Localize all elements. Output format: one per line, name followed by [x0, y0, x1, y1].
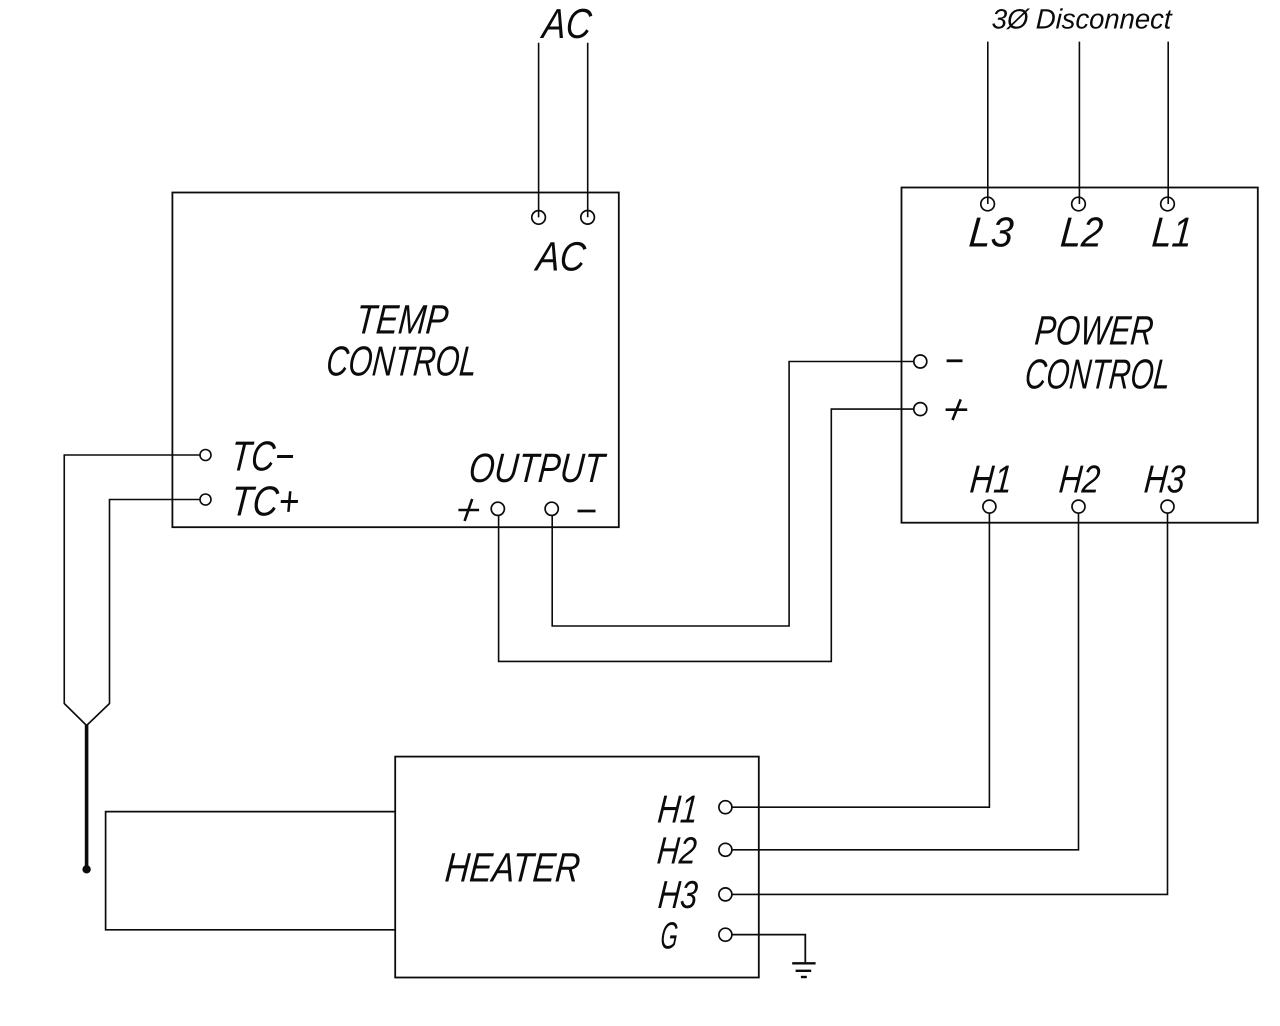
label TC+ [229, 478, 301, 525]
label AC (source) [538, 0, 594, 47]
svg-text:HEATER: HEATER [443, 845, 582, 891]
svg-text:L2: L2 [1059, 209, 1105, 256]
wire OUTPUT+ to POWER CONTROL + [499, 409, 914, 661]
svg-text:H1: H1 [968, 459, 1014, 502]
terminal power plus [914, 403, 927, 416]
wire TC- to thermocouple [64, 455, 200, 726]
svg-text:3Ø Disconnect: 3Ø Disconnect [991, 3, 1173, 34]
label 3-phase disconnect [991, 3, 1173, 34]
svg-text:H2: H2 [656, 831, 699, 873]
label CONTROL (power) [1023, 351, 1172, 398]
terminal heater H1 [719, 801, 732, 814]
label G (heater) [659, 916, 680, 958]
label POWER [1033, 308, 1155, 354]
wire AC line 2 [587, 43, 589, 218]
label H2 (power) [1057, 459, 1102, 502]
minus sign power - [947, 359, 963, 362]
wire H2 power to heater [732, 513, 1079, 850]
label H1 (heater) [656, 788, 700, 831]
label H1 (power) [968, 459, 1014, 502]
label L3 [967, 209, 1016, 256]
wire L2 [1078, 42, 1080, 204]
svg-text:H3: H3 [657, 874, 700, 917]
terminal AC-1 [532, 211, 546, 225]
wire G to ground [732, 935, 805, 963]
label TEMP [354, 296, 450, 342]
plus sign OUTPUT+ [458, 499, 479, 521]
terminal TC+ [200, 494, 211, 505]
minus sign OUTPUT- [578, 510, 596, 513]
svg-text:POWER: POWER [1033, 308, 1155, 354]
terminal L3 [981, 197, 995, 211]
terminal heater H2 [719, 843, 732, 856]
terminal power minus [914, 355, 927, 368]
heater element tube [106, 812, 396, 930]
wire H1 power to heater [732, 513, 990, 807]
label H3 (heater) [657, 874, 700, 917]
terminal power H1 [983, 500, 996, 513]
label CONTROL (temp) [325, 338, 479, 385]
terminal L1 [1161, 197, 1175, 211]
terminal power H3 [1161, 500, 1174, 513]
svg-text:H1: H1 [656, 788, 700, 831]
terminal heater H3 [719, 888, 732, 901]
thermocouple probe TC1 [85, 725, 89, 867]
svg-text:CONTROL: CONTROL [325, 338, 479, 385]
svg-text:AC: AC [538, 0, 594, 47]
svg-text:L1: L1 [1150, 209, 1194, 256]
terminal TC- [200, 450, 211, 461]
label L2 [1059, 209, 1105, 256]
label L1 [1150, 209, 1194, 256]
label OUTPUT [467, 445, 608, 491]
wire H3 power to heater [732, 513, 1168, 894]
svg-text:TC+: TC+ [229, 478, 301, 525]
temp control box U1 [172, 193, 618, 528]
wire L3 [987, 42, 989, 204]
ground symbol [792, 962, 815, 964]
wire TC+ to thermocouple [87, 500, 200, 726]
svg-text:H2: H2 [1057, 459, 1102, 502]
svg-text:L3: L3 [967, 209, 1016, 256]
wire AC line 1 [538, 43, 540, 218]
label H2 (heater) [656, 831, 699, 873]
terminal OUTPUT- [545, 502, 558, 515]
label AC terminals temp control [532, 234, 588, 280]
svg-text:OUTPUT: OUTPUT [467, 445, 608, 491]
terminal L2 [1072, 197, 1086, 211]
terminal power H2 [1072, 500, 1085, 513]
power control box U2 [902, 188, 1258, 523]
label H3 (power) [1142, 459, 1187, 502]
heater box [395, 757, 759, 978]
terminal AC-2 [581, 211, 595, 225]
svg-text:H3: H3 [1142, 459, 1187, 502]
plus sign power + [946, 399, 968, 420]
label TC- [229, 433, 296, 480]
terminal OUTPUT+ [491, 502, 504, 515]
label HEATER [443, 845, 582, 891]
wire L1 [1167, 42, 1169, 204]
svg-text:AC: AC [532, 234, 588, 280]
terminal heater G [719, 928, 732, 941]
svg-text:CONTROL: CONTROL [1023, 351, 1172, 398]
svg-text:TEMP: TEMP [354, 296, 450, 342]
svg-text:TC−: TC− [229, 433, 296, 480]
wire OUTPUT- to POWER CONTROL - [552, 362, 914, 627]
